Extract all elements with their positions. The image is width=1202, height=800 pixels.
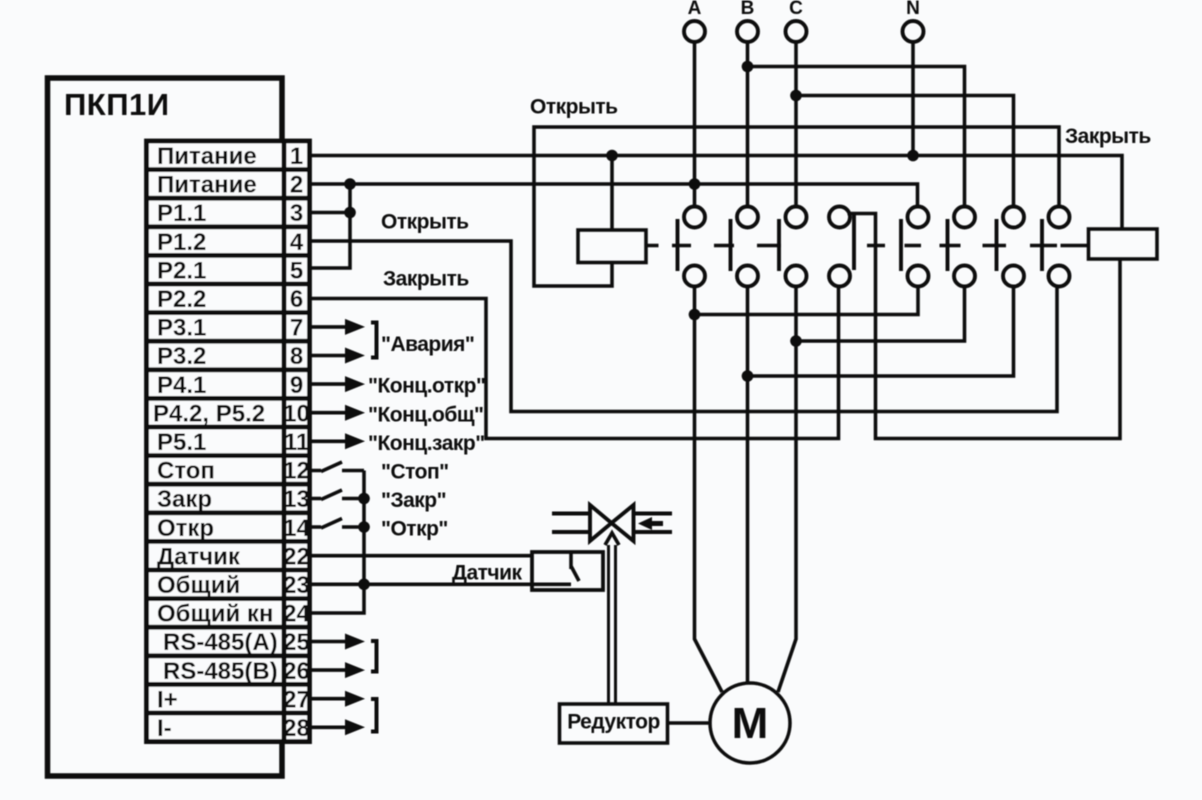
wire phase C to contact S7 top xyxy=(796,96,1014,207)
svg-text:27: 27 xyxy=(283,686,310,713)
node bus pin13 xyxy=(358,493,370,505)
wire S2 bottom to S7 bottom xyxy=(748,287,1014,377)
svg-text:12: 12 xyxy=(283,458,310,485)
wire pin22 to sensor xyxy=(310,554,532,558)
valve flow arrow xyxy=(638,517,663,530)
svg-text:Закрыть: Закрыть xyxy=(1065,125,1151,148)
svg-text:Р5.1: Р5.1 xyxy=(157,429,206,456)
terminal N xyxy=(903,0,924,42)
node bus pin23 xyxy=(358,579,370,591)
node bus pin14 xyxy=(358,521,370,533)
node S2 bottom tap xyxy=(742,370,754,382)
svg-text:Р3.1: Р3.1 xyxy=(157,315,206,342)
wire motor phase W xyxy=(778,287,796,693)
valve body xyxy=(552,505,672,541)
wire motor phase V xyxy=(746,287,750,684)
wire phase C to contact S3 top xyxy=(794,42,798,207)
stem arrowhead xyxy=(605,533,619,545)
svg-text:Р2.1: Р2.1 xyxy=(157,257,206,284)
wire phase B to contact S2 top xyxy=(746,42,750,207)
svg-text:RS-485(B): RS-485(B) xyxy=(163,658,278,685)
wire coil K1 top riser xyxy=(610,156,614,231)
wire pin4 Открыть to contact S8 bottom xyxy=(310,241,1057,412)
gearbox Редуктор xyxy=(560,704,668,743)
svg-text:5: 5 xyxy=(290,257,303,284)
device box ПКП1И xyxy=(48,78,283,776)
svg-text:I+: I+ xyxy=(157,686,178,713)
svg-text:23: 23 xyxy=(283,572,310,599)
svg-text:11: 11 xyxy=(284,429,309,456)
terminal labels xyxy=(153,143,310,742)
svg-text:Датчик: Датчик xyxy=(452,562,523,585)
svg-text:C: C xyxy=(789,0,803,19)
svg-text:Закр: Закр xyxy=(157,486,212,513)
node pin3 junction xyxy=(344,207,356,219)
svg-text:Датчик: Датчик xyxy=(157,543,241,570)
svg-text:2: 2 xyxy=(290,172,303,199)
node pin1-coilK1 junction xyxy=(606,150,618,162)
svg-text:Открыть: Открыть xyxy=(381,211,469,234)
svg-text:10: 10 xyxy=(283,400,310,427)
svg-text:Откр: Откр xyxy=(157,515,214,542)
switch button Откр pin14 xyxy=(310,519,364,529)
contact S4 xyxy=(829,207,854,287)
svg-text:Общий: Общий xyxy=(157,572,240,599)
wire gearbox to motor xyxy=(668,721,711,725)
terminal C xyxy=(786,0,807,42)
svg-text:24: 24 xyxy=(283,601,310,628)
svg-text:Питание: Питание xyxy=(157,172,257,199)
arrow pin8 xyxy=(310,348,365,364)
contact S1 xyxy=(678,207,706,287)
contact S3 xyxy=(779,207,807,287)
arrow pin7 xyxy=(310,319,365,335)
arrow pin26 xyxy=(310,662,365,678)
bracket RS-485 xyxy=(371,641,377,672)
svg-text:ПКП1И: ПКП1И xyxy=(64,87,170,122)
node pin2 phase A junction xyxy=(689,178,701,190)
svg-text:М: М xyxy=(732,699,769,748)
svg-text:6: 6 xyxy=(290,286,303,313)
wire pin2 to contact S5 top xyxy=(310,184,918,207)
contact S5 xyxy=(901,207,929,287)
arrow pin25 xyxy=(310,634,365,650)
svg-text:Р2.2: Р2.2 xyxy=(157,286,206,313)
wire S1 bottom to S5 bottom xyxy=(695,287,919,315)
svg-text:14: 14 xyxy=(283,515,310,542)
svg-text:Р4.2, Р5.2: Р4.2, Р5.2 xyxy=(153,400,265,427)
svg-text:25: 25 xyxy=(283,629,310,656)
wire phase A to contact S1 top xyxy=(693,42,697,207)
svg-text:3: 3 xyxy=(290,200,303,227)
motor M1 xyxy=(710,683,790,763)
svg-text:I-: I- xyxy=(157,715,172,742)
coil K1 Открыть xyxy=(578,230,646,263)
svg-text:Р1.1: Р1.1 xyxy=(157,200,206,227)
node S1 bottom tap xyxy=(689,309,701,321)
svg-text:Р3.2: Р3.2 xyxy=(157,343,206,370)
svg-text:4: 4 xyxy=(290,229,304,256)
wire pin3-pin5 bus xyxy=(310,184,350,268)
svg-text:Р1.2: Р1.2 xyxy=(157,229,206,256)
wire pin6 Закрыть to contact S4 bottom xyxy=(310,287,839,439)
svg-text:22: 22 xyxy=(283,543,310,570)
wire pin1 to N and coil K2 top xyxy=(310,156,1122,230)
node phase C tap xyxy=(790,90,802,102)
svg-text:"Авария": "Авария" xyxy=(381,333,474,356)
arrow pin27 xyxy=(310,691,365,707)
mechanical linkage dashes xyxy=(646,244,1089,248)
sensor box BK xyxy=(532,552,603,590)
wire S3 bottom to S6 bottom xyxy=(796,287,965,342)
svg-text:"Закр": "Закр" xyxy=(381,489,446,512)
wire button common bus xyxy=(310,471,364,614)
svg-text:N: N xyxy=(906,0,920,19)
node pin2 bus junction xyxy=(344,178,356,190)
svg-text:A: A xyxy=(688,0,702,19)
svg-text:13: 13 xyxy=(283,486,310,513)
arrow pin10 xyxy=(310,405,365,421)
svg-text:"Конц.закр": "Конц.закр" xyxy=(368,432,485,455)
svg-text:RS-485(A): RS-485(A) xyxy=(163,629,278,656)
svg-text:"Конц.общ": "Конц.общ" xyxy=(368,403,484,426)
wire pin23 to sensor xyxy=(310,582,571,586)
svg-text:"Стоп": "Стоп" xyxy=(381,461,449,484)
svg-text:Питание: Питание xyxy=(157,143,257,170)
arrow pin9 xyxy=(310,376,365,392)
wire phase B to contact S6 top xyxy=(748,67,965,207)
coil K2 Закрыть xyxy=(1089,229,1158,259)
contact S2 xyxy=(731,207,759,287)
bracket Авария xyxy=(371,323,377,358)
svg-text:8: 8 xyxy=(290,343,303,370)
wire coil K1 bottom to contact S8 top xyxy=(534,127,1059,286)
svg-text:Редуктор: Редуктор xyxy=(567,711,660,734)
svg-text:B: B xyxy=(741,0,755,19)
actuator stem xyxy=(609,545,616,704)
node phase B tap xyxy=(742,61,754,73)
node pin1-N junction xyxy=(907,150,919,162)
wire motor phase U xyxy=(695,287,723,693)
svg-text:9: 9 xyxy=(290,372,303,399)
node S3 bottom tap xyxy=(790,335,802,347)
wire coil K2 bottom riser xyxy=(848,214,1121,439)
svg-text:7: 7 xyxy=(290,315,303,342)
wire phase N drop xyxy=(911,42,915,156)
arrow pin28 xyxy=(310,719,365,735)
svg-text:Стоп: Стоп xyxy=(157,458,215,485)
svg-text:1: 1 xyxy=(290,143,303,170)
contact S6 xyxy=(948,207,976,287)
svg-text:"Конц.откр": "Конц.откр" xyxy=(368,375,485,398)
contact S7 xyxy=(997,207,1025,287)
sensor contact xyxy=(571,552,579,581)
terminal B xyxy=(737,0,758,42)
svg-text:26: 26 xyxy=(283,658,310,685)
svg-text:28: 28 xyxy=(283,715,310,742)
svg-text:"Откр": "Откр" xyxy=(381,518,448,541)
switch button Стоп pin12 xyxy=(310,462,364,472)
contact S8 xyxy=(1042,207,1070,287)
svg-text:Закрыть: Закрыть xyxy=(383,268,469,291)
terminal A xyxy=(684,0,705,42)
terminal strip rows xyxy=(147,141,310,742)
svg-text:Открыть: Открыть xyxy=(530,96,618,119)
arrow pin11 xyxy=(310,433,365,449)
bracket I loop xyxy=(371,699,377,732)
svg-text:Общий кн: Общий кн xyxy=(157,601,273,628)
svg-text:Р4.1: Р4.1 xyxy=(157,372,206,399)
switch button Закр pin13 xyxy=(310,490,364,500)
